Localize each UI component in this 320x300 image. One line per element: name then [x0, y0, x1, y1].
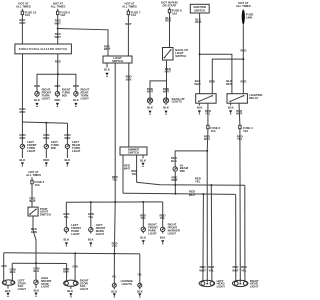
- ground light switch: [105, 73, 108, 77]
- wire YEL right license drop: [137, 254, 142, 283]
- wire park light bus: [66, 201, 162, 203]
- wire right marker light drop: [159, 202, 165, 227]
- svg-text:BLK: BLK: [34, 98, 40, 102]
- svg-text:BLK: BLK: [197, 106, 203, 110]
- lamp left rear turn light: [65, 140, 80, 153]
- svg-text:ALL TIMES: ALL TIMES: [236, 4, 251, 8]
- lamp left back-up light: [147, 98, 152, 103]
- wire RED/GRN stop light switch to stop bus: [31, 216, 37, 263]
- lamp right stop/tail light: [64, 279, 89, 291]
- lamp left license light: [112, 283, 116, 287]
- fusible link: [242, 10, 254, 25]
- wire BLK left marker ground: [88, 232, 94, 242]
- svg-text:10A: 10A: [35, 183, 40, 187]
- wire GRN left tail drop: [1, 253, 7, 281]
- junction right-turn splitter: [57, 73, 59, 75]
- svg-text:LIGHT: LIGHT: [27, 149, 36, 153]
- wire GRN/BLK right stop drop: [63, 264, 69, 282]
- svg-text:BLK: BLK: [63, 270, 69, 274]
- wire RED/BLK hi-beam indicator branch: [171, 151, 207, 167]
- ignition switch S1: [190, 4, 209, 13]
- node hot-at-all-times feed 1: [16, 2, 31, 9]
- ground lighting relay: [229, 110, 232, 114]
- svg-text:BLU: BLU: [204, 137, 210, 141]
- junction left high beam drop: [210, 184, 212, 186]
- stop light switch: [28, 207, 51, 217]
- wire BLK right stop/tail ground: [67, 286, 73, 293]
- svg-text:RED: RED: [54, 98, 60, 102]
- wire left headlight low drop: [202, 194, 205, 282]
- svg-text:BLK: BLK: [73, 98, 79, 102]
- ground right turn ind: [56, 103, 59, 107]
- svg-text:LIGHT: LIGHT: [80, 287, 89, 291]
- wire GRN/BLK left stop drop: [9, 263, 15, 281]
- ground right front marker: [161, 240, 164, 244]
- svg-text:YEL: YEL: [241, 268, 247, 272]
- svg-text:SWITCH: SWITCH: [194, 8, 205, 12]
- svg-text:BLK: BLK: [20, 158, 26, 162]
- svg-text:BLK: BLK: [140, 235, 146, 239]
- svg-text:IND: IND: [62, 93, 67, 97]
- svg-text:BLK: BLK: [147, 105, 153, 109]
- wire back-up split: [147, 81, 170, 100]
- svg-text:WHT: WHT: [29, 199, 36, 203]
- wire BLK dimmer ground lead: [140, 155, 146, 162]
- svg-text:ALL TIMES: ALL TIMES: [16, 4, 31, 8]
- wire RED/WHT branch to light switch: [58, 29, 111, 57]
- fuse 5: [31, 177, 45, 187]
- wire BLK/WHT ignition switch to headlight relay: [195, 13, 202, 94]
- fuse 10: [21, 9, 36, 18]
- wire GRN/BLK high mount drop: [33, 263, 39, 280]
- svg-text:GRN: GRN: [1, 265, 7, 268]
- junction park bus feed: [114, 201, 116, 203]
- svg-text:BLK: BLK: [104, 68, 110, 72]
- lamp left front turn light: [20, 140, 37, 153]
- junction RED branch: [242, 58, 244, 60]
- junction left turn ind drop: [45, 122, 47, 124]
- svg-text:GRN: GRN: [31, 230, 37, 234]
- lamp right rear turn light: [74, 87, 90, 100]
- svg-text:YEL: YEL: [195, 179, 201, 183]
- junction right park drop: [142, 201, 144, 203]
- ground left license: [113, 293, 116, 297]
- wire BLK right front turn ground: [34, 96, 40, 102]
- lamp left turn indicator: [44, 140, 59, 150]
- lamp right front turn light: [35, 87, 52, 100]
- wire BLK left park ground: [64, 232, 70, 242]
- wire BLK/RED fuse8 to back-up light switch: [165, 15, 171, 47]
- wire BLK right turn ind ground: [54, 96, 60, 102]
- lamp right front marker light: [161, 223, 180, 236]
- wire RED/WHT lighting relay output: [236, 103, 243, 125]
- wire BLK headlight relay ground lead: [197, 103, 203, 110]
- svg-text:BLK: BLK: [160, 235, 166, 239]
- label back-up lights: [172, 97, 185, 104]
- svg-text:RED: RED: [19, 136, 25, 140]
- svg-text:YEL: YEL: [140, 216, 146, 220]
- wire BLK high mount ground: [34, 284, 40, 292]
- wire tail light bus: [4, 253, 140, 254]
- lamp right front park light: [141, 223, 158, 236]
- svg-text:LIGHT: LIGHT: [72, 149, 81, 153]
- wire BLK left rear turn ground: [65, 149, 71, 162]
- wire WHT fuse7 to light switch: [125, 17, 132, 56]
- fuse 7: [127, 9, 141, 18]
- svg-text:LINK: LINK: [246, 15, 253, 19]
- svg-text:WHT: WHT: [171, 178, 178, 182]
- svg-text:BLK: BLK: [88, 238, 94, 242]
- wire RED/WHT dimmer low output: [123, 155, 130, 193]
- wire RED/BLU fuse6 to left headlight common: [204, 134, 210, 282]
- label GRN/RED left front turn: [19, 133, 25, 140]
- svg-text:BLK: BLK: [10, 270, 16, 274]
- fuse 4: [239, 125, 253, 134]
- wire BLK/RED fuse10 to directional switch: [19, 17, 25, 44]
- ground left turn ind: [45, 162, 48, 166]
- svg-text:RED: RED: [209, 80, 215, 84]
- junction left low beam drop: [202, 193, 204, 195]
- label RED/YEL left headlight high: [208, 265, 214, 272]
- ground left front marker: [89, 242, 92, 246]
- ground high mount: [34, 293, 37, 297]
- svg-text:15A: 15A: [131, 13, 136, 17]
- wire left front turn drop: [21, 122, 23, 144]
- svg-text:BLK: BLK: [65, 158, 71, 162]
- svg-text:LIGHT: LIGHT: [71, 232, 80, 236]
- svg-text:ALL TIMES: ALL TIMES: [122, 4, 137, 8]
- wire stop light bus: [12, 262, 66, 264]
- svg-text:LIGHT: LIGHT: [42, 96, 51, 100]
- svg-text:BLK: BLK: [140, 158, 146, 162]
- svg-text:IND: IND: [51, 146, 56, 150]
- wire YEL left license drop: [112, 254, 117, 283]
- lamp hi beam indicator: [173, 163, 189, 173]
- ground right front park: [142, 240, 145, 244]
- svg-text:LIGHT: LIGHT: [148, 232, 157, 236]
- lamp right headlight: [232, 279, 258, 289]
- svg-text:LIGHTS: LIGHTS: [122, 282, 132, 286]
- wire high beam line: [137, 177, 245, 186]
- junction tail bus feed: [113, 253, 115, 255]
- node hot-at-all-times feed 4: [236, 1, 251, 8]
- wire RED/WHT hi-beam indicator down: [171, 171, 178, 194]
- ground left back-up: [148, 111, 151, 115]
- label GRN/RED left turn ind: [43, 133, 49, 140]
- ground right front turn: [35, 103, 38, 107]
- lamp right turn indicator: [55, 87, 71, 97]
- wire RED back-up switch out: [165, 60, 172, 81]
- svg-text:RELAY: RELAY: [249, 96, 258, 100]
- wire BLK right license ground: [137, 287, 143, 293]
- svg-text:ALL TIMES: ALL TIMES: [26, 173, 41, 177]
- ground dimmer switch: [141, 163, 144, 167]
- svg-text:BLK: BLK: [228, 106, 234, 110]
- wire right headlight low drop: [235, 194, 237, 282]
- svg-text:GRN: GRN: [72, 266, 78, 269]
- svg-text:LIGHTS: LIGHTS: [172, 100, 182, 104]
- lamp left front marker light: [89, 223, 106, 236]
- wire BLK left stop/tail ground: [5, 285, 11, 293]
- junction left marker drop: [90, 201, 92, 203]
- svg-text:YEL: YEL: [64, 215, 70, 219]
- fuse 8: [168, 7, 182, 15]
- lighting relay K2: [227, 93, 263, 103]
- node hot-at-all-times feed 2: [51, 2, 66, 9]
- svg-text:LIGHT: LIGHT: [217, 284, 226, 288]
- ground left stop/tail: [6, 293, 9, 297]
- svg-text:BLK: BLK: [171, 159, 177, 163]
- node hot-in-run feed backup: [161, 1, 177, 8]
- wire right headlight high drop: [244, 185, 246, 282]
- svg-text:BLK: BLK: [5, 289, 11, 293]
- svg-text:15A: 15A: [211, 129, 216, 133]
- wire RED/WHT to directional switch: [55, 29, 62, 45]
- svg-text:WHT: WHT: [226, 82, 233, 86]
- svg-text:YEL: YEL: [137, 273, 142, 276]
- wire left headlight high drop: [210, 185, 213, 282]
- svg-text:ALL TIMES: ALL TIMES: [51, 4, 66, 8]
- junction RED/BLU hi-beam branch: [206, 150, 208, 152]
- node stop light feed hot at all times: [26, 170, 41, 177]
- wire BLK left back-up to ground: [147, 103, 153, 109]
- wire RED branch to headlight relay: [209, 59, 243, 94]
- junction right tail drop: [74, 252, 76, 254]
- svg-text:WHT: WHT: [163, 90, 170, 94]
- svg-text:WHT: WHT: [124, 166, 131, 170]
- wire left park light drop: [63, 202, 69, 227]
- wire RED/WHT fuse9 down: [55, 17, 62, 28]
- junction hi-beam indicator on high line: [174, 184, 176, 186]
- ground right stop/tail: [69, 293, 72, 297]
- svg-text:15A: 15A: [243, 129, 248, 133]
- svg-text:WHT: WHT: [147, 90, 154, 94]
- label BLK/WHT at headlight relay pin: [194, 79, 201, 86]
- wire BLK left front turn ground: [20, 149, 26, 162]
- svg-text:OR START: OR START: [162, 3, 176, 7]
- wire RED left turn ind ground: [43, 149, 49, 162]
- ground headlight relay: [198, 110, 201, 114]
- ground right back-up: [164, 111, 167, 115]
- wire left turn ind drop: [45, 123, 47, 145]
- svg-text:BLK: BLK: [163, 105, 169, 109]
- svg-text:BLK: BLK: [67, 289, 73, 293]
- svg-text:SWITCH: SWITCH: [40, 213, 51, 217]
- svg-text:WHT: WHT: [104, 47, 111, 51]
- wire RED/YEL dimmer high output: [131, 155, 137, 182]
- svg-text:BLK: BLK: [64, 238, 70, 242]
- wire BLK right park ground: [140, 232, 146, 240]
- junction RED/WHT branch: [57, 28, 59, 30]
- junction BLK/WHT branch: [199, 53, 201, 55]
- wire RED/YEL headlight relay output: [205, 103, 211, 125]
- wire low beam line: [123, 190, 236, 197]
- wire BLK right rear turn ground: [73, 96, 79, 102]
- svg-text:YEL: YEL: [208, 268, 214, 272]
- svg-text:SWITCH: SWITCH: [128, 151, 139, 155]
- wire GRN/RED directional switch left-turn output: [19, 54, 25, 122]
- wire RED/YEL light switch park output: [112, 63, 118, 202]
- node hot-at-all-times feed 3: [122, 2, 137, 9]
- ground left rear turn: [66, 162, 69, 166]
- svg-text:BLK: BLK: [34, 269, 40, 273]
- ground left front park: [65, 242, 68, 246]
- lamp left stop/tail light: [2, 279, 26, 291]
- fuse 6: [207, 125, 221, 134]
- fuse 9: [57, 9, 71, 18]
- wire BLK left license ground: [111, 287, 117, 293]
- svg-text:10A: 10A: [25, 13, 30, 17]
- wire BLK right marker ground: [160, 232, 166, 240]
- ground right license: [138, 293, 141, 297]
- wire right-turn splitter: [37, 74, 76, 91]
- svg-text:YEL: YEL: [88, 215, 94, 219]
- wire GRN right tail drop: [72, 253, 78, 281]
- svg-text:LIGHT: LIGHT: [81, 96, 90, 100]
- lamp right back-up light: [163, 98, 168, 103]
- lamp left headlight: [199, 279, 225, 289]
- headlight relay K1: [196, 94, 216, 104]
- svg-text:WHT: WHT: [195, 20, 202, 24]
- wire RED/YEL fuse4 to right headlight common: [237, 134, 243, 282]
- svg-text:RED: RED: [54, 84, 60, 88]
- wire RED/WHT fuse5 to stop light switch: [29, 187, 36, 207]
- svg-text:RED: RED: [43, 158, 49, 162]
- wire left-turn bus: [22, 122, 67, 123]
- svg-text:SWITCH: SWITCH: [175, 54, 186, 58]
- wire left marker light drop: [88, 202, 94, 227]
- junction hi-beam indicator on low line: [174, 193, 176, 195]
- svg-text:RED: RED: [73, 84, 79, 88]
- svg-text:WHT: WHT: [199, 268, 206, 272]
- label RED/WHT left headlight low: [199, 265, 206, 272]
- svg-text:SWITCH: SWITCH: [112, 59, 123, 63]
- wire BLK light switch ground lead: [104, 63, 110, 72]
- svg-text:LIGHT: LIGHT: [168, 232, 177, 236]
- svg-text:RED: RED: [64, 136, 70, 140]
- label RED/YEL right headlight high: [241, 265, 247, 272]
- label GRN/RED left rear turn: [64, 133, 70, 140]
- wire right park light drop: [140, 202, 146, 227]
- svg-text:WHT: WHT: [189, 193, 196, 197]
- svg-text:WHT: WHT: [194, 82, 201, 86]
- ground left front turn: [21, 162, 24, 166]
- wire left rear turn drop: [66, 123, 68, 144]
- svg-text:YEL: YEL: [160, 216, 166, 220]
- svg-text:BLK: BLK: [111, 289, 117, 293]
- svg-text:RED: RED: [43, 136, 49, 140]
- wire RED directional switch right-turn output: [55, 54, 61, 74]
- svg-text:WHT: WHT: [232, 268, 239, 272]
- junction stop bus feed: [35, 262, 37, 264]
- wire right turn ind drop: [56, 74, 58, 91]
- svg-text:WHT: WHT: [165, 70, 172, 74]
- svg-text:DIRECTIONAL/HAZARD SWITCH: DIRECTIONAL/HAZARD SWITCH: [19, 48, 68, 51]
- svg-text:YEL: YEL: [131, 172, 137, 176]
- label license lights: [121, 279, 133, 286]
- label RED/WHT right headlight low: [232, 265, 239, 272]
- lamp left front park light: [64, 223, 81, 236]
- wire BLK lighting relay ground lead: [228, 103, 234, 110]
- lamp high mount stop light: [34, 276, 52, 288]
- wire BLK/WHT branch to lighting relay: [200, 54, 233, 93]
- svg-text:BLK: BLK: [137, 289, 143, 293]
- svg-text:10A: 10A: [60, 13, 65, 17]
- wire RED fusible link down: [240, 24, 246, 93]
- back-up light switch: [163, 48, 189, 61]
- dimmer switch: [120, 147, 147, 155]
- svg-text:RED: RED: [165, 19, 171, 23]
- svg-text:BLK: BLK: [34, 288, 40, 292]
- svg-text:IND: IND: [180, 169, 185, 173]
- svg-text:YEL: YEL: [112, 275, 117, 278]
- wire BLK right back-up to ground: [163, 103, 169, 109]
- ground right rear turn: [74, 103, 77, 107]
- svg-text:LIGHT: LIGHT: [96, 232, 105, 236]
- directional/hazard switch: [15, 44, 72, 54]
- svg-text:LIGHT: LIGHT: [18, 287, 27, 291]
- lamp right license light: [138, 283, 142, 287]
- wire RED/BLK light switch to dimmer switch: [126, 63, 132, 147]
- svg-text:RED: RED: [241, 80, 247, 84]
- svg-text:LIGHT: LIGHT: [250, 284, 259, 288]
- wire RED/YEL park feed to tail bus: [112, 202, 118, 254]
- light switch: [103, 56, 132, 63]
- svg-text:LIGHT: LIGHT: [41, 285, 50, 289]
- svg-text:10A: 10A: [172, 11, 177, 15]
- svg-text:RED: RED: [34, 84, 40, 88]
